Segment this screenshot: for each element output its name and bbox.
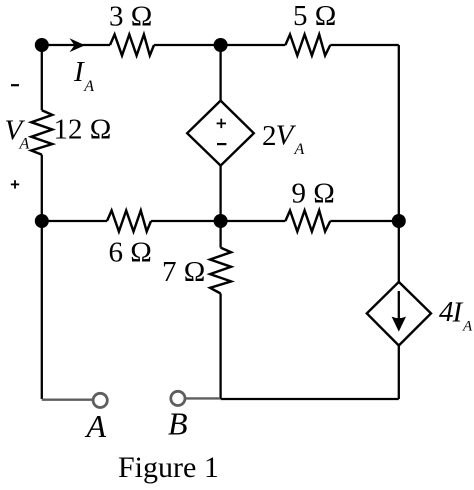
- svg-text:A: A: [85, 408, 107, 444]
- svg-text:4: 4: [439, 296, 454, 328]
- svg-text:12 Ω: 12 Ω: [54, 113, 112, 145]
- svg-text:A: A: [19, 135, 30, 152]
- svg-text:9 Ω: 9 Ω: [292, 178, 335, 210]
- svg-text:5 Ω: 5 Ω: [293, 0, 336, 32]
- svg-text:B: B: [168, 405, 188, 441]
- svg-text:Figure 1: Figure 1: [118, 451, 219, 484]
- svg-text:6 Ω: 6 Ω: [109, 237, 152, 269]
- svg-text:3 Ω: 3 Ω: [109, 0, 152, 32]
- svg-text:V: V: [276, 120, 297, 152]
- svg-text:A: A: [462, 319, 473, 335]
- svg-text:7 Ω: 7 Ω: [162, 256, 205, 288]
- svg-text:2: 2: [262, 120, 277, 152]
- svg-text:A: A: [83, 78, 94, 95]
- svg-text:I: I: [73, 56, 85, 88]
- svg-text:A: A: [294, 141, 305, 158]
- svg-text:I: I: [452, 297, 464, 329]
